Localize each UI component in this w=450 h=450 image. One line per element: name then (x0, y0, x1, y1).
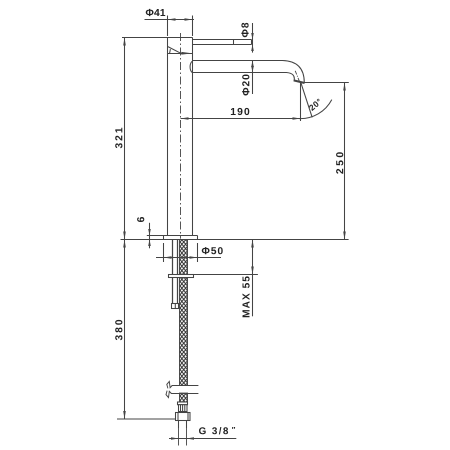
deck line (121, 239, 349, 241)
handle rod joint (233, 40, 235, 45)
dimension MAX 55 (251, 240, 254, 317)
dimension 380 (117, 240, 176, 420)
spout top line (193, 61, 305, 83)
washer extension line (194, 274, 258, 276)
spout root cap (190, 61, 192, 72)
dimension 6 (148, 223, 151, 249)
base plate (164, 236, 198, 240)
dimension 190 (181, 83, 301, 121)
centerline faucet axis (180, 33, 182, 239)
plate top extension line (147, 235, 164, 237)
mounting stud upper (173, 240, 178, 275)
hose nut (176, 413, 191, 421)
dimension Phi50 (156, 243, 221, 262)
hose break (166, 381, 199, 397)
dimension Phi20 (251, 61, 254, 95)
spout outlet centerline (295, 71, 299, 82)
dimension 321 (122, 38, 168, 240)
faucet body outline (168, 38, 193, 236)
dimension Phi41 (145, 16, 195, 37)
stud nut cap (172, 304, 179, 309)
lever arrow (181, 52, 192, 55)
angle 20 degrees (299, 83, 332, 119)
dimension G3/8 (169, 429, 236, 446)
spout bottom line (193, 73, 295, 81)
lever detail diagonal (168, 47, 181, 54)
hose ferrule (178, 402, 188, 412)
mounting washer (169, 275, 194, 278)
supply hose lower (180, 393, 188, 403)
lever detail small line (169, 49, 172, 53)
mounting stud lower (173, 278, 178, 304)
spout outlet face (294, 80, 305, 83)
connector tube G3/8 (179, 421, 187, 429)
supply hose upper (180, 240, 188, 386)
dimension 250 (305, 83, 349, 240)
head joint line (168, 53, 193, 55)
handle rod (193, 40, 252, 45)
dimension Phi8 (251, 23, 254, 53)
